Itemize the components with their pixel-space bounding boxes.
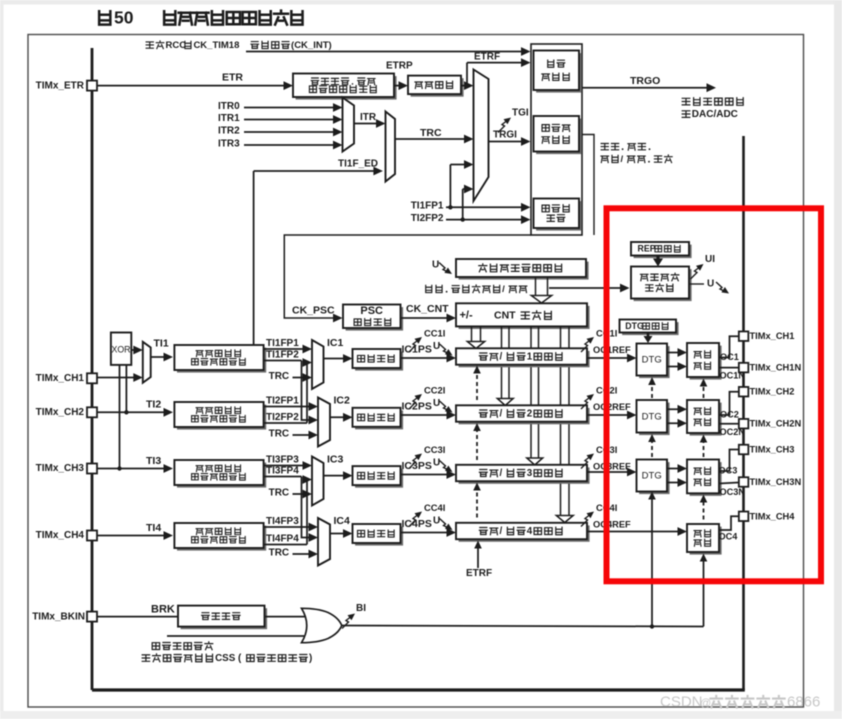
wire hollow down to CNT bbox=[535, 277, 537, 296]
svg-text:TI1F_ED: TI1F_ED bbox=[338, 159, 378, 170]
svg-text:U: U bbox=[433, 458, 440, 469]
svg-text:CK_PSC: CK_PSC bbox=[292, 304, 335, 316]
svg-text:CC4I: CC4I bbox=[424, 502, 445, 513]
node TIMx_CH2N bbox=[739, 419, 749, 429]
svg-text:IC3PS: IC3PS bbox=[402, 460, 432, 472]
svg-text:TIMx_CH2: TIMx_CH2 bbox=[36, 407, 85, 418]
svg-text:ITR: ITR bbox=[360, 112, 377, 123]
wires DTG2 to OC bbox=[667, 408, 683, 410]
mux TRC select bbox=[386, 112, 396, 182]
wire dashed capture2->1 bbox=[476, 372, 478, 400]
svg-text:RCC: RCC bbox=[166, 40, 187, 51]
svg-text:TI1: TI1 bbox=[154, 337, 169, 349]
arrow DTG reg down bbox=[647, 333, 650, 338]
wire hollow CNT to capture2 bbox=[501, 326, 503, 398]
mux IC1 bbox=[312, 340, 324, 389]
svg-text:TI2FP2: TI2FP2 bbox=[266, 412, 299, 423]
svg-text:U: U bbox=[433, 516, 440, 527]
svg-text:DTG: DTG bbox=[642, 471, 662, 482]
label 来自RCC的CK_TIM18 bbox=[146, 42, 153, 48]
svg-text:IC1PS: IC1PS bbox=[402, 343, 432, 355]
box DTG register bbox=[622, 322, 679, 335]
svg-text:REP: REP bbox=[638, 244, 656, 254]
svg-text:TRGI: TRGI bbox=[493, 130, 517, 141]
label 至其它定时器 至DAC/ADC bbox=[682, 98, 690, 105]
svg-text:OC3REF: OC3REF bbox=[593, 461, 631, 471]
svg-text:DAC/ADC: DAC/ADC bbox=[692, 109, 738, 120]
svg-text:2: 2 bbox=[527, 409, 533, 420]
box output control 2 输出控制 bbox=[690, 403, 722, 436]
box prescaler 预分频器 row1 bbox=[355, 352, 403, 371]
mux IC4 bbox=[318, 518, 330, 566]
box slave mode controller 从模式控制器 bbox=[536, 119, 582, 155]
svg-text:OC3N: OC3N bbox=[720, 487, 746, 497]
node TIMx_CH1N bbox=[739, 363, 749, 373]
svg-text:TIMx_CH3: TIMx_CH3 bbox=[36, 463, 85, 474]
svg-text:TIMx_CH2N: TIMx_CH2N bbox=[750, 419, 802, 429]
svg-text:U: U bbox=[707, 279, 714, 290]
svg-text:IC4: IC4 bbox=[334, 515, 351, 527]
wire OC4REF bbox=[587, 531, 683, 533]
svg-text:DTG: DTG bbox=[625, 321, 644, 331]
svg-text:ETRF: ETRF bbox=[466, 568, 492, 579]
svg-text:TIMx_CH3N: TIMx_CH3N bbox=[750, 477, 802, 487]
mux trigger selection bbox=[474, 70, 489, 202]
svg-text:TI2FP2: TI2FP2 bbox=[411, 213, 444, 224]
svg-text:3: 3 bbox=[527, 468, 533, 479]
wire BI feed to DTG column bbox=[651, 498, 653, 627]
node TIMx_CH3 bbox=[739, 445, 749, 455]
XOR gate bbox=[111, 333, 131, 365]
svg-text:/: / bbox=[500, 352, 503, 363]
svg-text:ITR2: ITR2 bbox=[218, 126, 240, 137]
wire CH1 into mux bbox=[97, 377, 139, 379]
box capture/compare register 3 bbox=[459, 467, 590, 483]
box output control 1 输出控制 bbox=[690, 346, 722, 380]
wire dashed capture3->2 bbox=[476, 429, 478, 460]
svg-text:TI3FP4: TI3FP4 bbox=[266, 466, 299, 477]
svg-text:TIMx_CH2: TIMx_CH2 bbox=[750, 387, 795, 397]
label 停止清除或向上向下 bbox=[426, 285, 432, 292]
svg-text:1: 1 bbox=[527, 352, 533, 363]
svg-text:OC4REF: OC4REF bbox=[593, 519, 631, 529]
svg-text:): ) bbox=[309, 653, 312, 664]
box PSC prescaler bbox=[346, 307, 404, 331]
svg-text:OC2: OC2 bbox=[720, 409, 739, 419]
svg-text:ETRF: ETRF bbox=[474, 52, 500, 63]
box output control 3 输出控制 bbox=[690, 462, 722, 496]
svg-text:BI: BI bbox=[356, 603, 366, 614]
svg-text:TI3: TI3 bbox=[146, 455, 161, 467]
svg-text:DTG: DTG bbox=[642, 411, 662, 422]
svg-text:U: U bbox=[433, 398, 440, 409]
svg-text:PSC: PSC bbox=[360, 305, 383, 317]
svg-text:IC4PS: IC4PS bbox=[402, 518, 432, 530]
svg-text:IC1: IC1 bbox=[327, 337, 344, 349]
label 时钟失效事件 bbox=[152, 643, 159, 650]
svg-text:IC2: IC2 bbox=[334, 394, 351, 406]
wire clock fail bbox=[167, 635, 304, 637]
svg-text:DTG: DTG bbox=[642, 355, 662, 366]
svg-text:4: 4 bbox=[527, 526, 533, 537]
box input filter & edge detector row2 bbox=[177, 405, 266, 430]
svg-text:CNT: CNT bbox=[494, 310, 516, 322]
svg-text:U: U bbox=[432, 260, 439, 271]
OR gate bbox=[302, 608, 342, 642]
svg-text:TI1FP1: TI1FP1 bbox=[411, 201, 444, 212]
wire left vertical bus bbox=[91, 48, 94, 690]
wire hollow CNT to capture3 bbox=[530, 326, 532, 458]
wire cross TI3FP4 down bbox=[302, 477, 314, 538]
svg-text:TIMx_CH1: TIMx_CH1 bbox=[750, 331, 795, 341]
svg-text:TIMx_CH3: TIMx_CH3 bbox=[750, 444, 795, 454]
box prescaler 预分频器 row3 bbox=[355, 469, 403, 488]
wire TI3 bbox=[97, 468, 169, 470]
arrow REP to counter bbox=[656, 256, 659, 261]
wire TRC to trigger mux bbox=[395, 138, 470, 140]
label 内部时钟 (CK_INT) + wire bbox=[251, 42, 259, 49]
box trigger controller 触发控制器 bbox=[536, 53, 582, 93]
wire XOR output bbox=[131, 349, 138, 351]
wire cross TI2FP1 up bbox=[302, 422, 308, 424]
wire OC1REF bbox=[587, 357, 632, 359]
wire TRGI bbox=[489, 141, 527, 143]
node TIMx_CH4 bbox=[739, 512, 749, 522]
svg-text:TI4: TI4 bbox=[146, 522, 161, 534]
mux IC2 bbox=[318, 398, 330, 447]
wire BRK bbox=[97, 616, 178, 618]
wire CK_CNT bbox=[401, 317, 452, 319]
node TIMx_CH1 bbox=[739, 331, 749, 341]
red highlight box bbox=[607, 208, 822, 581]
wire right vertical bus bbox=[742, 136, 745, 690]
svg-text:TIMx_ETR: TIMx_ETR bbox=[36, 80, 85, 91]
wire hollow CNT to capture1 bbox=[471, 326, 473, 341]
box polarity selection / edge detector & prescaler bbox=[296, 76, 397, 100]
svg-text:TIMx_CH1: TIMx_CH1 bbox=[36, 373, 85, 384]
mux IC3 bbox=[312, 457, 324, 506]
box output control 4 输出控制 bbox=[690, 527, 722, 555]
svg-text:TIMx_BKIN: TIMx_BKIN bbox=[32, 611, 85, 622]
box REP register bbox=[634, 245, 692, 259]
svg-text:U: U bbox=[433, 341, 440, 352]
svg-text:TGI: TGI bbox=[512, 108, 529, 119]
svg-text:ETR: ETR bbox=[222, 71, 243, 83]
svg-text:TRC: TRC bbox=[269, 429, 290, 440]
svg-text:OC1REF: OC1REF bbox=[593, 345, 631, 355]
svg-text:TI4FP3: TI4FP3 bbox=[266, 516, 299, 527]
svg-text:/: / bbox=[502, 284, 505, 295]
wire cross TI4FP3 up bbox=[302, 544, 308, 546]
svg-text:ITR0: ITR0 bbox=[218, 101, 240, 112]
wire ETRF into capture4 bbox=[477, 546, 479, 568]
box capture/compare register 4 bbox=[459, 525, 590, 541]
svg-text:CK_TIM18: CK_TIM18 bbox=[193, 40, 239, 51]
wires OC outputs bbox=[719, 336, 738, 357]
wire TI4 bbox=[97, 535, 169, 537]
box DTG 2 bbox=[639, 403, 670, 436]
svg-text:OC1: OC1 bbox=[720, 352, 739, 362]
svg-text:CC1I: CC1I bbox=[424, 327, 445, 338]
svg-text:ETRP: ETRP bbox=[386, 61, 413, 72]
box prescaler 预分频器 row2 bbox=[355, 410, 403, 429]
svg-text:TRC: TRC bbox=[269, 371, 290, 382]
svg-text:6866: 6866 bbox=[787, 693, 820, 710]
svg-text:CC3I: CC3I bbox=[424, 444, 445, 455]
svg-text:TRC: TRC bbox=[269, 548, 290, 559]
svg-text:CC2I: CC2I bbox=[424, 384, 445, 395]
wire to repetition counter bbox=[549, 287, 625, 289]
wire ETR bbox=[97, 85, 289, 87]
box prescaler 预分频器 row4 bbox=[355, 527, 403, 546]
box auto-reload register 自动重装载寄存器 bbox=[459, 262, 589, 280]
wire TRGO bbox=[582, 87, 712, 89]
svg-text:TI1FP1: TI1FP1 bbox=[266, 338, 299, 349]
box input filter & edge detector row4 bbox=[177, 526, 266, 551]
svg-text:CSDN: CSDN bbox=[660, 693, 703, 710]
box controller group bbox=[531, 44, 582, 235]
svg-text:ITR1: ITR1 bbox=[218, 113, 240, 124]
svg-text:TRGO: TRGO bbox=[630, 75, 660, 87]
svg-text:/: / bbox=[500, 409, 503, 420]
wire bottom thick bbox=[92, 688, 745, 691]
svg-text:/: / bbox=[500, 526, 503, 537]
svg-text:TI1FP2: TI1FP2 bbox=[266, 350, 299, 361]
svg-text:IC2PS: IC2PS bbox=[402, 400, 432, 412]
svg-text:TIMx_CH4: TIMx_CH4 bbox=[750, 511, 796, 521]
wire BI feed to OC column bbox=[703, 558, 705, 627]
box DTG 1 bbox=[639, 346, 670, 378]
wire dashed capture4->3 bbox=[476, 488, 478, 518]
svg-text:OC4: OC4 bbox=[719, 531, 739, 541]
wire BI output bbox=[342, 626, 704, 627]
svg-text:TI2: TI2 bbox=[146, 399, 161, 411]
svg-text:XOR: XOR bbox=[111, 344, 130, 354]
wire OC2REF bbox=[587, 414, 632, 416]
box input filter & edge detector row1 bbox=[177, 348, 266, 373]
wire ETRF branch bbox=[461, 85, 470, 87]
box input filter & edge detector row3 bbox=[177, 463, 266, 488]
svg-text:TRC: TRC bbox=[420, 127, 442, 139]
svg-text:50: 50 bbox=[114, 8, 134, 28]
svg-text:/: / bbox=[621, 154, 624, 165]
svg-text:TI3FP3: TI3FP3 bbox=[266, 455, 299, 466]
svg-text:TI2FP1: TI2FP1 bbox=[266, 396, 299, 407]
svg-text:OC3: OC3 bbox=[719, 465, 738, 475]
svg-text:(CK_INT): (CK_INT) bbox=[291, 40, 332, 51]
wire hollow CNT to capture4 bbox=[560, 326, 562, 515]
box polarity selection 极性选择 bbox=[181, 608, 268, 629]
node TIMx_CH3N bbox=[739, 477, 749, 487]
svg-text:OC2REF: OC2REF bbox=[593, 402, 631, 412]
mux TI1 select bbox=[143, 342, 151, 383]
svg-text:IC3: IC3 bbox=[327, 453, 344, 465]
mux ITR select bbox=[343, 98, 355, 152]
box DTG 3 bbox=[639, 462, 670, 494]
svg-text:BRK: BRK bbox=[151, 603, 175, 615]
label 复位使能 向上/向下计数 bbox=[601, 144, 608, 150]
wire TI2 bbox=[97, 411, 169, 413]
svg-text:TIMx_CH4: TIMx_CH4 bbox=[36, 530, 85, 541]
box repetition counter 重复次数计数器 bbox=[634, 269, 692, 301]
svg-text:TIMx_CH1N: TIMx_CH1N bbox=[750, 363, 802, 373]
box capture/compare register 1 bbox=[459, 351, 590, 367]
wire OC3REF bbox=[587, 471, 632, 473]
svg-text:CK_CNT: CK_CNT bbox=[406, 303, 449, 315]
box encoder interface 编码器接口 bbox=[536, 201, 582, 231]
svg-text:TRC: TRC bbox=[269, 488, 290, 499]
svg-text:TI4FP4: TI4FP4 bbox=[266, 534, 299, 545]
wire slave-mode bracket bbox=[582, 135, 594, 236]
wires DTG3 to OC bbox=[667, 468, 683, 470]
box capture/compare register 2 bbox=[459, 408, 590, 424]
label 来自时钟控制器CSS bbox=[142, 655, 149, 661]
svg-text:/: / bbox=[500, 468, 503, 479]
node TIMx_CH2 bbox=[739, 387, 749, 397]
box CNT counter bbox=[459, 306, 590, 329]
svg-text:+/-: +/- bbox=[460, 309, 473, 321]
title 图50 高级控制定时器框图 bbox=[99, 11, 110, 24]
wire cross TI1FP2 down bbox=[302, 361, 314, 421]
wires DTG1 to OC bbox=[667, 352, 683, 354]
svg-text:ITR3: ITR3 bbox=[218, 139, 240, 150]
svg-text:UI: UI bbox=[705, 254, 715, 265]
wire XOR taps to CH2 CH3 bbox=[119, 365, 121, 469]
wire CK_PSC bbox=[284, 235, 531, 318]
svg-text:CSS (: CSS ( bbox=[215, 653, 242, 664]
box input filter 输入滤波 bbox=[411, 78, 464, 97]
